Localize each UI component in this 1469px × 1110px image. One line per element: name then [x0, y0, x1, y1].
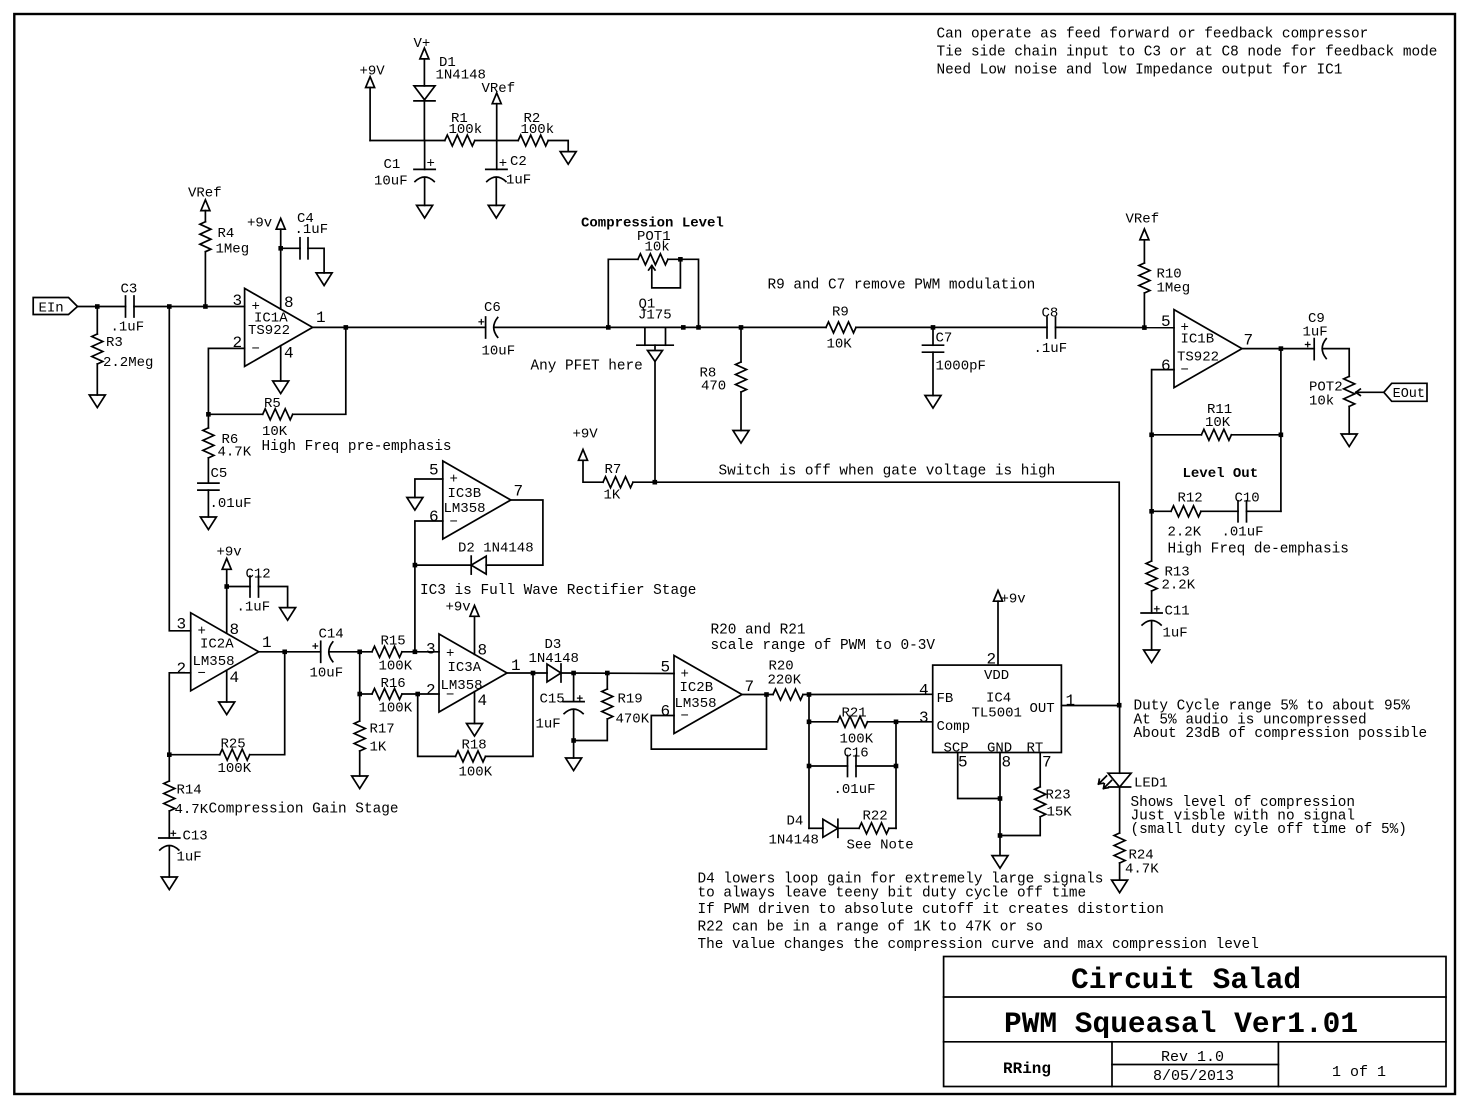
svg-text:R22: R22 [863, 809, 888, 825]
svg-text:scale range of PWM to 0-3V: scale range of PWM to 0-3V [711, 638, 936, 654]
label R20 and R21 note [711, 623, 936, 655]
svg-text:−: − [252, 342, 260, 358]
svg-text:5: 5 [429, 462, 439, 480]
wire D3 to IC2B pin5 [561, 672, 674, 675]
svg-text:10uF: 10uF [482, 344, 516, 360]
capacitor C14 [310, 627, 344, 682]
svg-text:LED1: LED1 [1134, 776, 1168, 792]
svg-text:1: 1 [262, 634, 272, 652]
svg-text:1N4148: 1N4148 [529, 651, 579, 667]
svg-text:OUT: OUT [1030, 701, 1055, 717]
svg-text:4.7K: 4.7K [1125, 862, 1159, 878]
power VRef flag R4 [188, 186, 222, 222]
node R21 left [807, 720, 812, 725]
wire SCP [958, 753, 1000, 799]
power VRef flag R10 [1126, 212, 1160, 264]
svg-text:EIn: EIn [39, 301, 64, 317]
note duty cycle block [1134, 699, 1428, 743]
wire R11 to output node [1231, 434, 1281, 436]
svg-text:Any PFET here: Any PFET here [531, 359, 643, 375]
note D4 block [698, 872, 1259, 954]
svg-text:100K: 100K [459, 765, 493, 781]
svg-text:Compression Gain Stage: Compression Gain Stage [209, 802, 399, 818]
wire gate line to OUT node [633, 482, 1119, 705]
svg-text:470: 470 [701, 379, 726, 395]
svg-text:2: 2 [426, 682, 436, 700]
wire node to R11 [1152, 434, 1202, 436]
node C16 right [894, 764, 899, 769]
ground R17 [352, 776, 368, 789]
wire R15 to IC3A pin3 [402, 651, 439, 653]
wire C14 to R15 [330, 651, 373, 653]
svg-text:1000pF: 1000pF [936, 359, 986, 375]
power +9V flag R7 [573, 427, 604, 483]
wire C6 to Q1 [495, 326, 827, 328]
svg-text:to always leave teeny bit duty: to always leave teeny bit duty cycle off… [698, 886, 1087, 902]
capacitor C4 [281, 211, 328, 273]
svg-text:.1uF: .1uF [111, 320, 145, 336]
node SCP/GND [998, 796, 1003, 801]
node D2 anode [413, 563, 418, 568]
node C14/R15 [357, 650, 362, 655]
svg-text:Need Low noise and low Impedan: Need Low noise and low Impedance output … [937, 63, 1343, 79]
port EOut [1384, 383, 1427, 402]
svg-text:IC2B: IC2B [680, 680, 714, 696]
power V+ flag [414, 36, 431, 86]
node pin3/D2 branch [413, 650, 418, 655]
svg-text:7: 7 [1042, 754, 1052, 772]
svg-text:C3: C3 [121, 282, 138, 298]
svg-text:1uF: 1uF [506, 173, 531, 189]
node R21 right [894, 720, 899, 725]
svg-text:4: 4 [284, 345, 294, 363]
wire comp node down [895, 722, 897, 829]
svg-text:3: 3 [177, 616, 187, 634]
wire R9 to C8 [856, 326, 1047, 328]
op-amp IC3B [429, 461, 523, 539]
svg-text:1uF: 1uF [1163, 626, 1188, 642]
svg-text:D2 1N4148: D2 1N4148 [458, 541, 534, 557]
svg-text:6: 6 [429, 508, 439, 526]
svg-text:R21: R21 [842, 706, 867, 722]
node main/R4 [203, 304, 208, 309]
svg-text:Level Out: Level Out [1183, 466, 1259, 482]
svg-text:6: 6 [661, 703, 671, 721]
svg-text:R9 and C7 remove PWM modulatio: R9 and C7 remove PWM modulation [768, 278, 1036, 294]
svg-text:C5: C5 [211, 466, 228, 482]
wire IC2A pin4 [226, 670, 228, 702]
ground C4 [316, 273, 332, 286]
svg-text:V+: V+ [414, 36, 431, 52]
svg-text:470K: 470K [616, 712, 650, 728]
wire GND [999, 753, 1001, 856]
wire node to R25 [169, 754, 219, 756]
capacitor C11 [1141, 604, 1190, 651]
svg-text:C1: C1 [384, 157, 401, 173]
svg-text:8: 8 [478, 642, 488, 660]
svg-text:C15: C15 [540, 692, 565, 708]
wire EIn to C3 [78, 306, 126, 308]
svg-text:100K: 100K [379, 659, 413, 675]
svg-text:10K: 10K [827, 337, 853, 353]
svg-text:2.2Meg: 2.2Meg [103, 355, 153, 371]
wire FB node down [808, 695, 810, 829]
node R19 top [605, 671, 610, 676]
resistor R7 [603, 462, 633, 504]
svg-text:1uF: 1uF [1303, 325, 1328, 341]
svg-text:IC3B: IC3B [448, 486, 482, 502]
resistor R17 [354, 694, 395, 776]
power +9v flag C4 [247, 216, 285, 310]
svg-text:1: 1 [316, 309, 326, 327]
svg-text:C11: C11 [1165, 604, 1190, 620]
wire IC1A pin2 feedback [208, 348, 244, 414]
potentiometer POT2 [1309, 376, 1384, 434]
svg-text:R18: R18 [462, 738, 487, 754]
svg-text:R12: R12 [1178, 491, 1203, 507]
svg-text:R19: R19 [618, 692, 643, 708]
node +9v/C4 [278, 246, 283, 251]
resistor R15 [372, 634, 413, 675]
svg-text:R14: R14 [177, 783, 202, 799]
node R12 left [1149, 509, 1154, 514]
svg-text:+9v: +9v [446, 600, 471, 616]
svg-text:TL5001: TL5001 [972, 706, 1022, 722]
capacitor C2 [486, 154, 531, 205]
diode D3 [529, 637, 579, 682]
svg-text:4: 4 [919, 682, 929, 700]
svg-text:1: 1 [1066, 692, 1076, 710]
ground C15 [566, 758, 582, 771]
ground C11 [1144, 650, 1160, 663]
ground C5 [200, 517, 216, 530]
svg-text:.01uF: .01uF [210, 496, 252, 512]
capacitor C7 [923, 327, 986, 395]
svg-text:7: 7 [745, 678, 755, 696]
resistor R13 [1146, 511, 1196, 613]
svg-text:Rev 1.0: Rev 1.0 [1161, 1049, 1224, 1066]
node R16 left [357, 692, 362, 697]
wire R1 to C2 node [475, 140, 518, 142]
svg-text:2.2K: 2.2K [1162, 578, 1196, 594]
resistor R11 [1201, 402, 1232, 440]
wire R20 to FB [803, 693, 933, 695]
node EIn/R3 [95, 304, 100, 309]
svg-text:15K: 15K [1047, 805, 1073, 821]
wire C8 to IC1B [1056, 326, 1175, 328]
resistor R19 [574, 673, 650, 741]
svg-text:VDD: VDD [984, 668, 1009, 684]
capacitor C5 [198, 466, 252, 517]
potentiometer POT1 [608, 229, 698, 327]
svg-text:.01uF: .01uF [834, 782, 876, 798]
node C16 left [807, 764, 812, 769]
ground C7 [925, 396, 941, 409]
svg-text:1N4148: 1N4148 [769, 833, 819, 849]
svg-text:R5: R5 [264, 396, 281, 412]
svg-text:IC4: IC4 [986, 691, 1011, 707]
power +9V flag [360, 64, 386, 141]
svg-text:C6: C6 [484, 300, 501, 316]
wire IC1A output [313, 326, 486, 328]
svg-text:7: 7 [514, 483, 524, 501]
svg-text:EOut: EOut [1393, 387, 1425, 402]
svg-text:R4: R4 [218, 226, 235, 242]
wire IC3B pin6 [415, 521, 443, 652]
note top block [937, 27, 1438, 79]
ground IC3B pin5 [407, 498, 423, 511]
node IC2B out [764, 692, 769, 697]
svg-text:4.7K: 4.7K [218, 445, 252, 461]
svg-text:.1uF: .1uF [295, 222, 329, 238]
node R16/R18 [415, 692, 420, 697]
wire IC2A pin2 feedback [169, 673, 190, 755]
title block [944, 957, 1446, 1087]
wire node to R5 [208, 413, 262, 415]
wire IC3A output [507, 672, 547, 674]
svg-text:R23: R23 [1046, 788, 1071, 804]
IC U4 TL5001 [919, 651, 1075, 772]
svg-text:R3: R3 [106, 335, 123, 351]
resistor R25 [218, 737, 252, 778]
svg-text:C7: C7 [936, 331, 953, 347]
svg-text:High Freq de-emphasis: High Freq de-emphasis [1168, 542, 1349, 558]
node R23/GND [998, 833, 1003, 838]
ground R3 [89, 395, 105, 408]
svg-text:RRing: RRing [1003, 1060, 1051, 1078]
resistor R5 [262, 396, 293, 440]
op-amp IC2A [177, 613, 272, 691]
svg-text:220K: 220K [768, 673, 802, 689]
svg-text:5: 5 [1161, 313, 1171, 331]
svg-text:C14: C14 [319, 627, 344, 643]
resistor R23 [1000, 753, 1072, 836]
resistor R2 [518, 111, 554, 146]
ground C12 [280, 608, 296, 621]
svg-text:R7: R7 [605, 462, 622, 478]
capacitor C15 [536, 673, 585, 758]
svg-text:1uF: 1uF [536, 717, 561, 733]
svg-text:3: 3 [233, 292, 243, 310]
svg-text:4: 4 [478, 692, 488, 710]
diode D4 [769, 814, 860, 849]
svg-text:1K: 1K [370, 740, 387, 756]
power +9v flag IC4 [994, 590, 1026, 665]
resistor R3 [92, 307, 154, 396]
svg-text:+9v: +9v [247, 216, 272, 232]
capacitor C6 [479, 300, 515, 360]
svg-text:100k: 100k [521, 122, 555, 138]
wire IC3A pin4 [474, 692, 476, 724]
LED LED1 [1099, 706, 1168, 834]
op-amp IC3A [426, 634, 521, 712]
ground C2 [488, 205, 504, 218]
svg-text:10k: 10k [1309, 394, 1334, 410]
node R5/R6 [206, 412, 211, 417]
node IC1A out [344, 325, 349, 330]
ground IC1A pin4 [273, 381, 289, 394]
node main mid [681, 325, 686, 330]
svg-text:100k: 100k [449, 122, 483, 138]
resistor R9 [826, 305, 856, 353]
svg-text:3: 3 [919, 709, 929, 727]
node IC2A out [282, 650, 287, 655]
ground IC3A pin4 [467, 724, 483, 737]
resistor R8 [700, 327, 747, 430]
diode D1 [414, 55, 486, 141]
svg-text:D4: D4 [787, 814, 804, 830]
capacitor C10 [1222, 491, 1281, 541]
svg-text:1K: 1K [604, 488, 621, 504]
resistor R12 [1152, 491, 1238, 541]
note LED block [1131, 795, 1407, 838]
svg-text:C2: C2 [510, 154, 527, 170]
resistor R24 [1114, 833, 1159, 880]
svg-text:2: 2 [177, 660, 187, 678]
svg-text:.1uF: .1uF [1034, 341, 1068, 357]
ground R24 [1112, 880, 1128, 893]
node D3/C15 [571, 671, 576, 676]
wire IC3B pin5 to ground [415, 479, 443, 498]
svg-text:TS922: TS922 [1177, 350, 1219, 366]
svg-text:1N4148: 1N4148 [436, 68, 486, 84]
svg-text:7: 7 [1244, 332, 1254, 350]
svg-text:+9v: +9v [217, 545, 242, 561]
svg-text:5: 5 [661, 659, 671, 677]
svg-text:VRef: VRef [1126, 212, 1160, 228]
resistor R14 [164, 755, 209, 838]
svg-text:100K: 100K [379, 701, 413, 717]
wire IC1B output [1242, 348, 1314, 350]
svg-text:.01uF: .01uF [1222, 525, 1264, 541]
svg-text:LM358: LM358 [444, 501, 486, 517]
port EIn [33, 298, 77, 317]
svg-text:8: 8 [284, 294, 294, 312]
wire R2 to ground [548, 141, 568, 152]
diode D2 [415, 541, 534, 575]
svg-text:10uF: 10uF [374, 174, 408, 190]
node main/R8 [739, 325, 744, 330]
svg-text:About 23dB of compression poss: About 23dB of compression possible [1134, 726, 1428, 742]
power +9v flag IC3A [446, 600, 480, 655]
node C15/R19 bottom [571, 738, 576, 743]
node C12 [224, 584, 229, 589]
wire C14 node down to R16 [359, 652, 361, 694]
capacitor C12 [227, 567, 288, 616]
svg-text:+9V: +9V [573, 427, 599, 443]
svg-text:See Note: See Note [847, 838, 914, 854]
node IC1B out [1279, 346, 1284, 351]
ground IC2A pin4 [219, 702, 235, 715]
node POT1 wiper [678, 257, 683, 262]
svg-text:Circuit Salad: Circuit Salad [1071, 963, 1301, 997]
svg-text:IC3 is Full Wave Rectifier Sta: IC3 is Full Wave Rectifier Stage [420, 583, 696, 599]
svg-text:R20 and R21: R20 and R21 [711, 623, 806, 639]
wire C3 to IC1A pin3 [134, 306, 245, 308]
node main/C7 [931, 325, 936, 330]
node main/IC2A branch [167, 304, 172, 309]
wire R18 feedback [418, 694, 456, 756]
svg-text:IC1B: IC1B [1181, 332, 1215, 348]
svg-text:+9v: +9v [1001, 592, 1026, 608]
node R11 right [1279, 433, 1284, 438]
svg-text:R9: R9 [832, 305, 849, 321]
op-amp IC1B [1161, 310, 1253, 388]
node C8/R10 [1142, 325, 1147, 330]
svg-text:1 of 1: 1 of 1 [1332, 1064, 1386, 1081]
op-amp IC1A [233, 288, 326, 366]
wire IC2A output [259, 651, 321, 653]
svg-text:100K: 100K [218, 761, 252, 777]
svg-text:PWM Squeasal Ver1.01: PWM Squeasal Ver1.01 [1004, 1007, 1358, 1041]
node R20/FB [807, 692, 812, 697]
svg-text:6: 6 [1161, 357, 1171, 375]
svg-text:8/05/2013: 8/05/2013 [1153, 1068, 1234, 1085]
ground C1 [417, 205, 433, 218]
svg-text:1uF: 1uF [177, 850, 202, 866]
power +9v flag C12 [217, 545, 242, 634]
svg-text:(small duty cyle off time of 5: (small duty cyle off time of 5%) [1131, 822, 1407, 838]
resistor R18 [456, 738, 493, 781]
svg-text:5: 5 [958, 754, 968, 772]
svg-text:R17: R17 [370, 722, 395, 738]
capacitor C3 [111, 282, 145, 336]
svg-text:Switch is off when gate voltag: Switch is off when gate voltage is high [719, 464, 1056, 480]
resistor R22 [847, 809, 914, 854]
svg-text:2: 2 [233, 334, 243, 352]
svg-text:+9V: +9V [360, 64, 386, 80]
svg-text:1Meg: 1Meg [1157, 281, 1191, 297]
wire C9 to POT2 [1323, 349, 1349, 377]
svg-text:10K: 10K [262, 424, 288, 440]
svg-text:Comp: Comp [937, 719, 971, 735]
resistor R1 [445, 111, 482, 146]
wire IC2B output [742, 694, 773, 696]
wire R25 to output [250, 652, 285, 755]
capacitor C16 [809, 746, 896, 799]
svg-text:Can operate as feed forward or: Can operate as feed forward or feedback … [937, 27, 1369, 43]
resistor R4 [200, 222, 249, 307]
wire main to IC2A pin3 [169, 307, 190, 631]
node R7/gate [653, 480, 658, 485]
wire IC4 OUT [1061, 705, 1119, 707]
svg-text:The value changes the compress: The value changes the compression curve … [698, 937, 1259, 953]
node R11 left [1149, 433, 1154, 438]
svg-text:C13: C13 [183, 829, 208, 845]
svg-text:High Freq pre-emphasis: High Freq pre-emphasis [262, 439, 452, 455]
svg-text:IC3A: IC3A [448, 660, 482, 676]
wire R16 to IC3A pin2 [402, 693, 439, 695]
svg-text:4.7K: 4.7K [175, 802, 209, 818]
svg-text:LM358: LM358 [193, 654, 235, 670]
svg-text:J175: J175 [638, 308, 672, 324]
ground R8 [733, 431, 749, 444]
wire +9V rail [370, 140, 445, 142]
wire IC1B pin6 feedback [1152, 370, 1174, 512]
svg-text:4: 4 [230, 669, 240, 687]
svg-text:TS922: TS922 [248, 323, 290, 339]
svg-text:Tie side chain input to C3 or: Tie side chain input to C3 or at C8 node… [937, 45, 1438, 61]
svg-text:.1uF: .1uF [237, 600, 271, 616]
wire Comp to IC4 [896, 721, 933, 723]
node IC3A out [531, 671, 536, 676]
capacitor C9 [1303, 311, 1328, 360]
ground POT2 [1341, 434, 1357, 447]
svg-text:LM358: LM358 [675, 696, 717, 712]
op-amp IC2B [661, 656, 755, 734]
power VRef flag top [482, 81, 516, 169]
svg-text:LM358: LM358 [441, 678, 483, 694]
